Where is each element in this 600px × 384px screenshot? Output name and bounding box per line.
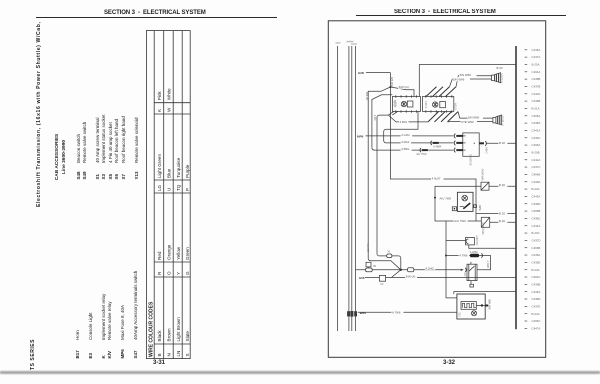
svg-text:C437C: C437C xyxy=(532,165,541,169)
wire X3 feed xyxy=(446,240,466,242)
wire S48 drop to Y13 xyxy=(446,221,457,298)
wire branch to X6 top pin xyxy=(390,87,414,97)
legend header CAB ACCESSORIES xyxy=(55,133,68,181)
svg-text:C445A: C445A xyxy=(532,253,541,257)
wire beacon bottom pair xyxy=(448,112,493,122)
svg-text:U: U xyxy=(166,188,171,191)
connector X7 roof beacon right xyxy=(423,95,454,113)
page number 3-31 xyxy=(153,360,165,366)
svg-text:Light Green: Light Green xyxy=(157,154,162,178)
connector on wire1 xyxy=(408,268,414,272)
svg-text:W: W xyxy=(166,107,171,112)
svg-text:C438B: C438B xyxy=(532,77,541,81)
svg-text:C439B: C439B xyxy=(532,282,541,286)
svg-text:WIRE COLOUR CODES: WIRE COLOUR CODES xyxy=(148,301,154,357)
connector on vertical A xyxy=(366,262,371,270)
svg-text:C437B: C437B xyxy=(532,85,541,89)
svg-text:C436D: C436D xyxy=(532,202,541,206)
wire branch to vertical 1 xyxy=(368,87,390,259)
wire MP6 feed w1 with hump xyxy=(366,135,454,137)
svg-text:Y13: Y13 xyxy=(458,312,461,317)
svg-text:E/L 7W6: E/L 7W6 xyxy=(417,152,427,156)
wire S49 to bus xyxy=(490,221,516,223)
svg-text:Brown: Brown xyxy=(166,328,171,341)
svg-text:Turquoise: Turquoise xyxy=(176,157,181,178)
svg-text:C437D: C437D xyxy=(532,238,541,242)
label 4 G3G xyxy=(401,133,413,137)
svg-text:B-21A: B-21A xyxy=(532,107,540,111)
svg-text:MP6 (40A): MP6 (40A) xyxy=(481,168,484,180)
svg-text:1/2 R/N: 1/2 R/N xyxy=(367,243,370,252)
pin arc X5 right xyxy=(485,141,486,146)
svg-text:4 9L97: 4 9L97 xyxy=(432,176,441,180)
svg-text:Pink: Pink xyxy=(157,91,162,101)
svg-text:C444A: C444A xyxy=(532,224,541,228)
legend column 1 codes xyxy=(75,349,140,358)
svg-text:C443A: C443A xyxy=(532,195,541,199)
svg-text:X1: X1 xyxy=(387,250,391,253)
wire diag junction to wire2 xyxy=(391,270,400,278)
socket X3 xyxy=(466,237,475,245)
svg-text:C436E: C436E xyxy=(532,260,541,264)
wire 3 to Y13 xyxy=(358,311,457,313)
svg-text:B-24A: B-24A xyxy=(532,312,540,316)
label UTE W60 xyxy=(461,120,478,124)
svg-text:C436A: C436A xyxy=(532,48,541,52)
svg-text:Slate: Slate xyxy=(185,331,190,342)
svg-text:TQ: TQ xyxy=(176,184,181,191)
svg-text:B: B xyxy=(157,353,162,356)
switch S49 xyxy=(476,217,490,227)
svg-text:X6 (BEA): X6 (BEA) xyxy=(501,73,504,84)
svg-text:C437E: C437E xyxy=(532,304,541,308)
svg-text:B-23A: B-23A xyxy=(532,268,540,272)
svg-text:4 G4G: 4 G4G xyxy=(425,266,434,270)
connector X5 socket xyxy=(454,133,479,156)
svg-text:N: N xyxy=(166,353,171,356)
connector on wire1 left xyxy=(366,265,377,272)
label 4 RG1 xyxy=(401,140,412,144)
wire vertical 2 from X6 left xyxy=(372,95,392,148)
svg-text:C464C: C464C xyxy=(532,275,541,279)
svg-text:W60 Y: W60 Y xyxy=(487,260,490,268)
svg-text:X5 (DRK): X5 (DRK) xyxy=(469,154,473,165)
svg-text:G/W: G/W xyxy=(358,71,364,75)
legend column 2 codes xyxy=(76,171,141,179)
connector plugs on bus lines xyxy=(347,311,357,317)
legend column 2 descriptions xyxy=(76,114,141,163)
svg-text:5/N 9W6: 5/N 9W6 xyxy=(453,78,465,82)
svg-text:C437A: C437A xyxy=(532,55,541,59)
svg-text:A/U 7W0: A/U 7W0 xyxy=(440,196,452,200)
wire w2 xyxy=(384,111,454,142)
wire X3 bottom to bus xyxy=(469,245,516,248)
svg-text:C466B: C466B xyxy=(532,246,541,250)
harness hatch below X7 xyxy=(428,112,458,122)
svg-text:B-20C: B-20C xyxy=(532,231,540,235)
svg-text:C446A: C446A xyxy=(532,290,541,294)
lamp in X7 xyxy=(433,102,446,108)
svg-text:5/W (A): 5/W (A) xyxy=(406,275,416,279)
pin arc relay left xyxy=(465,268,466,272)
beacon horn bottom xyxy=(493,115,502,125)
label A/U 7W0 s49 xyxy=(454,219,468,223)
svg-text:C438D: C438D xyxy=(532,297,541,301)
connector X4 on wire2 xyxy=(379,275,385,286)
wire bus line 2 xyxy=(348,46,350,331)
svg-text:C438C: C438C xyxy=(532,216,541,220)
wire fuse to bus xyxy=(489,185,516,187)
svg-text:C438A: C438A xyxy=(532,121,541,125)
svg-text:X7 (BEA): X7 (BEA) xyxy=(502,115,505,126)
svg-text:A/U 7W0: A/U 7W0 xyxy=(454,219,466,223)
svg-text:G06: G06 xyxy=(359,276,365,280)
label 4 9L97 xyxy=(431,176,444,180)
svg-text:W60: W60 xyxy=(360,311,367,315)
svg-text:Light Brown: Light Brown xyxy=(176,317,181,342)
arrow into relay xyxy=(461,269,464,271)
label B 20 s48 xyxy=(498,211,507,215)
svg-text:B-20A: B-20A xyxy=(532,63,540,67)
svg-text:MP6: MP6 xyxy=(357,134,364,138)
wire Y13 inner to node xyxy=(476,305,485,307)
wire G/W feed xyxy=(366,72,390,74)
inline pin on w2 xyxy=(431,141,432,145)
svg-text:Red: Red xyxy=(157,251,162,260)
svg-text:X3 (IMP): X3 (IMP) xyxy=(476,235,479,245)
svg-text:S49 (REM): S49 (REM) xyxy=(482,222,485,235)
wire X5 to bus xyxy=(487,142,517,144)
svg-text:Yellow: Yellow xyxy=(176,246,181,260)
svg-text:X7/24: X7/24 xyxy=(454,103,458,110)
label 4 7W6 xyxy=(459,254,470,258)
connector X6 roof beacon left xyxy=(392,95,420,113)
title TS SERIES xyxy=(30,339,36,370)
legend column 1 descriptions xyxy=(75,271,140,340)
label 4 B01 xyxy=(399,120,409,124)
switch S48 body xyxy=(452,192,476,211)
node Y13 junction xyxy=(481,304,483,306)
schematic border frame xyxy=(328,21,545,358)
svg-text:B-20B: B-20B xyxy=(532,151,540,155)
svg-text:LG: LG xyxy=(157,184,162,191)
label A 7W6 xyxy=(391,311,403,315)
svg-text:P: P xyxy=(185,188,190,191)
svg-text:Blue: Blue xyxy=(166,168,171,178)
connector pin ladder xyxy=(525,48,541,331)
wire top B 20 label xyxy=(497,66,503,70)
svg-text:S48: S48 xyxy=(478,205,482,211)
svg-text:C436C: C436C xyxy=(532,136,541,140)
node S48 feed dot xyxy=(434,197,436,199)
svg-text:Black: Black xyxy=(157,330,162,342)
wire w3 xyxy=(372,148,454,150)
svg-text:C447A: C447A xyxy=(532,326,541,330)
bottom scan shadow band xyxy=(0,371,600,373)
left page header text xyxy=(104,10,206,16)
svg-text:Green: Green xyxy=(185,247,190,260)
wire bus line 1 xyxy=(337,46,339,331)
label S/W A xyxy=(405,275,417,279)
pin X5 right xyxy=(479,142,484,144)
switch S48 enclosure xyxy=(435,186,476,221)
wire 1 main lower xyxy=(356,269,461,271)
svg-text:C436B: C436B xyxy=(532,99,541,103)
node B06 junction xyxy=(389,86,391,88)
svg-text:C440A: C440A xyxy=(532,92,541,96)
right page header underline xyxy=(356,15,566,16)
svg-text:(01#0): (01#0) xyxy=(395,100,397,107)
relay K/V xyxy=(467,262,477,287)
svg-text:4 RG1: 4 RG1 xyxy=(401,140,410,144)
left page header underline xyxy=(36,17,277,18)
svg-text:B 20: B 20 xyxy=(497,66,503,70)
svg-text:B 20: B 20 xyxy=(499,141,505,145)
svg-text:C441A: C441A xyxy=(532,129,541,133)
harness hatch above X7 xyxy=(426,87,456,97)
svg-text:C465B: C465B xyxy=(532,209,541,213)
label S/N W60 xyxy=(459,73,477,77)
svg-text:C464: C464 xyxy=(485,147,489,154)
svg-text:B06 W60: B06 W60 xyxy=(488,299,491,310)
svg-text:5/W (G): 5/W (G) xyxy=(399,85,409,89)
svg-text:Y: Y xyxy=(176,272,181,275)
wire bus line 3 xyxy=(351,46,353,331)
svg-text:UB 3: UB 3 xyxy=(374,114,377,120)
svg-text:C439A: C439A xyxy=(532,180,541,184)
wire S48 to bus xyxy=(476,213,516,215)
label S/N 9W6 xyxy=(453,77,471,81)
wire bundle diagonal xyxy=(392,111,397,115)
svg-text:4 B01: 4 B01 xyxy=(400,120,408,124)
connector X1 screw terminal xyxy=(377,250,401,269)
svg-text:S-4884: S-4884 xyxy=(433,145,442,149)
wire vertical drop to fuse feed xyxy=(390,73,481,187)
svg-text:C464A: C464A xyxy=(532,70,541,74)
svg-text:1B: 1B xyxy=(373,265,376,268)
label B 20 fuse xyxy=(498,183,507,187)
svg-text:Orange: Orange xyxy=(166,244,171,260)
svg-text:C442A: C442A xyxy=(532,158,541,162)
label 4 G4G xyxy=(425,266,436,270)
wire X6 top right riser xyxy=(419,65,516,97)
svg-text:LN: LN xyxy=(176,351,181,357)
svg-text:B 20: B 20 xyxy=(499,183,505,187)
inline pin on w3 xyxy=(420,148,421,152)
wire vertical A corner to junction xyxy=(368,259,401,270)
svg-text:UTE W60: UTE W60 xyxy=(461,120,474,124)
title Electroshift Transmission xyxy=(36,21,42,207)
page number 3-32 xyxy=(443,360,455,366)
label 4 B3G xyxy=(401,147,412,151)
svg-text:R: R xyxy=(157,271,162,275)
wire Y13 top to bus xyxy=(454,291,516,293)
svg-text:C465A: C465A xyxy=(532,114,541,118)
svg-text:Purple: Purple xyxy=(185,164,190,178)
wire colour codes table xyxy=(146,30,191,359)
wire bus line 4 xyxy=(355,46,357,331)
wire X3 loop to relay xyxy=(446,256,491,270)
svg-text:K: K xyxy=(157,108,162,112)
svg-text:4 B3G: 4 B3G xyxy=(401,147,410,151)
solenoid Y13 assembly xyxy=(454,292,485,320)
label S/N W60 lower xyxy=(468,115,484,119)
svg-text:S: S xyxy=(185,353,190,356)
svg-text:K/V: K/V xyxy=(464,272,467,276)
svg-text:4 7W6: 4 7W6 xyxy=(459,254,468,258)
svg-text:1/2 R/N: 1/2 R/N xyxy=(365,92,369,101)
pin Y13 right xyxy=(485,305,488,307)
svg-text:4 G3G: 4 G3G xyxy=(401,133,410,137)
wire 4B01 lower run xyxy=(396,121,428,123)
svg-text:C464B: C464B xyxy=(532,173,541,177)
svg-text:A 7W6: A 7W6 xyxy=(392,311,401,315)
label 5/W G xyxy=(398,85,409,89)
node wire1 junction xyxy=(400,269,402,271)
label B 20 s49 xyxy=(498,219,507,223)
svg-text:X7/24: X7/24 xyxy=(424,101,428,108)
lamp in X6 xyxy=(401,101,413,107)
label B 20 X5 xyxy=(498,141,507,145)
svg-text:B-22A: B-22A xyxy=(532,187,540,191)
fuse MP6 xyxy=(481,182,489,190)
wire 2 lower xyxy=(365,277,516,279)
wire beacon top pair xyxy=(450,76,492,87)
svg-text:5/N W60: 5/N W60 xyxy=(460,73,472,77)
svg-text:B 20: B 20 xyxy=(499,219,505,223)
node X3 junction xyxy=(445,255,447,257)
wire X6 bottom bundle xyxy=(377,111,394,253)
svg-text:G: G xyxy=(185,271,190,275)
svg-text:B 20: B 20 xyxy=(499,211,505,215)
beacon horn top xyxy=(492,73,501,83)
svg-text:S-488A: S-488A xyxy=(470,251,479,254)
svg-text:X4: X4 xyxy=(380,283,384,286)
svg-text:C466A: C466A xyxy=(532,143,541,147)
scan smudge above buses xyxy=(336,41,358,45)
svg-text:B06 R/N: B06 R/N xyxy=(390,77,394,87)
wire main right bus xyxy=(515,46,517,329)
right page header text xyxy=(394,9,496,15)
svg-text:C465C: C465C xyxy=(532,319,541,323)
connector S-488A xyxy=(470,251,483,258)
svg-text:White: White xyxy=(166,88,171,100)
svg-text:O: O xyxy=(166,271,171,275)
